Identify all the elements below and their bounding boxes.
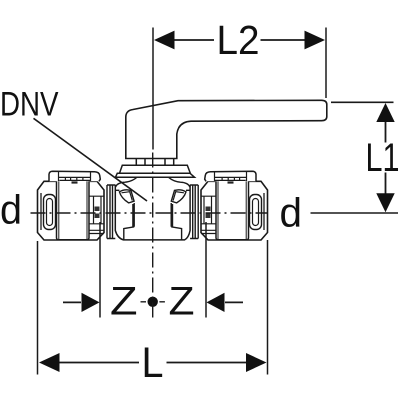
body left wedge inner line — [122, 192, 133, 201]
sleeve inner lines — [59, 179, 87, 240]
bonnet upper band — [120, 165, 191, 173]
svg-text:d: d — [0, 187, 22, 233]
fitting window inner — [47, 199, 53, 226]
dimension L2 extension line right — [325, 28, 327, 99]
body left dome shoulder — [115, 177, 137, 187]
center mark dot — [148, 297, 158, 307]
centerline horizontal — [31, 212, 268, 214]
centerline vertical — [152, 153, 154, 318]
body right dome shoulder — [169, 177, 191, 187]
dimension L1 extension line bottom — [311, 212, 399, 214]
body right shoulder — [186, 189, 190, 191]
fitting inner face line — [40, 193, 42, 230]
collet region — [89, 196, 104, 233]
dimension L extension line right — [267, 240, 269, 375]
dimension L arrow left — [39, 353, 60, 372]
dimension L line — [60, 362, 247, 364]
dimension L1 arrow up — [376, 103, 394, 122]
body right flange — [190, 185, 198, 239]
body left column — [124, 203, 134, 240]
dimension L2 arrow left — [154, 31, 175, 50]
fitting octagon — [38, 181, 105, 240]
svg-text:DNV: DNV — [0, 86, 59, 124]
body left shoulder — [115, 189, 119, 191]
svg-text:L: L — [142, 339, 164, 387]
body right column — [171, 203, 181, 240]
dimension Z tail right — [225, 301, 243, 303]
body right wedge — [171, 190, 186, 203]
svg-text:L2: L2 — [217, 17, 260, 63]
body right wedge inner line — [173, 192, 184, 201]
svg-text:Z: Z — [169, 280, 195, 324]
clip band — [49, 171, 100, 181]
fitting sleeve — [57, 178, 90, 240]
body left wedge — [119, 190, 134, 203]
dimension L extension line left — [37, 241, 39, 375]
dimension Z extension line left — [99, 222, 101, 318]
clip ticks — [65, 177, 83, 180]
dimension L1 line — [385, 122, 387, 194]
clip dark mark — [72, 181, 78, 183]
dimension Z arrow left — [82, 293, 100, 312]
center mark ticks — [141, 301, 165, 303]
leader line DNV — [34, 118, 148, 201]
dimension L2 arrow right — [305, 31, 326, 50]
dimension L1 extension line top — [331, 101, 394, 103]
fitting window outer — [44, 195, 56, 230]
bonnet lower band — [116, 173, 195, 177]
clip band bottom — [59, 177, 91, 180]
left fitting — [38, 171, 105, 240]
handle lever — [126, 100, 327, 158]
collet size marks — [95, 207, 100, 219]
right fitting (mirrored) — [201, 171, 268, 240]
dimension Z arrow right — [207, 293, 225, 312]
clip band bump lines — [59, 172, 91, 182]
dimension L arrow right — [246, 353, 267, 372]
body left flange — [107, 185, 115, 239]
svg-text:L1: L1 — [366, 136, 400, 180]
valve body outline — [115, 185, 190, 240]
dimension Z extension line right — [205, 222, 207, 318]
dimension L1 arrow down — [376, 193, 394, 212]
svg-text:d: d — [280, 190, 303, 236]
handle stem feet — [136, 159, 173, 166]
dimension L2 extension line left — [152, 28, 154, 150]
dimension L2 line — [174, 39, 306, 41]
dimension Z tail left — [63, 301, 81, 303]
svg-text:Z: Z — [110, 280, 138, 324]
